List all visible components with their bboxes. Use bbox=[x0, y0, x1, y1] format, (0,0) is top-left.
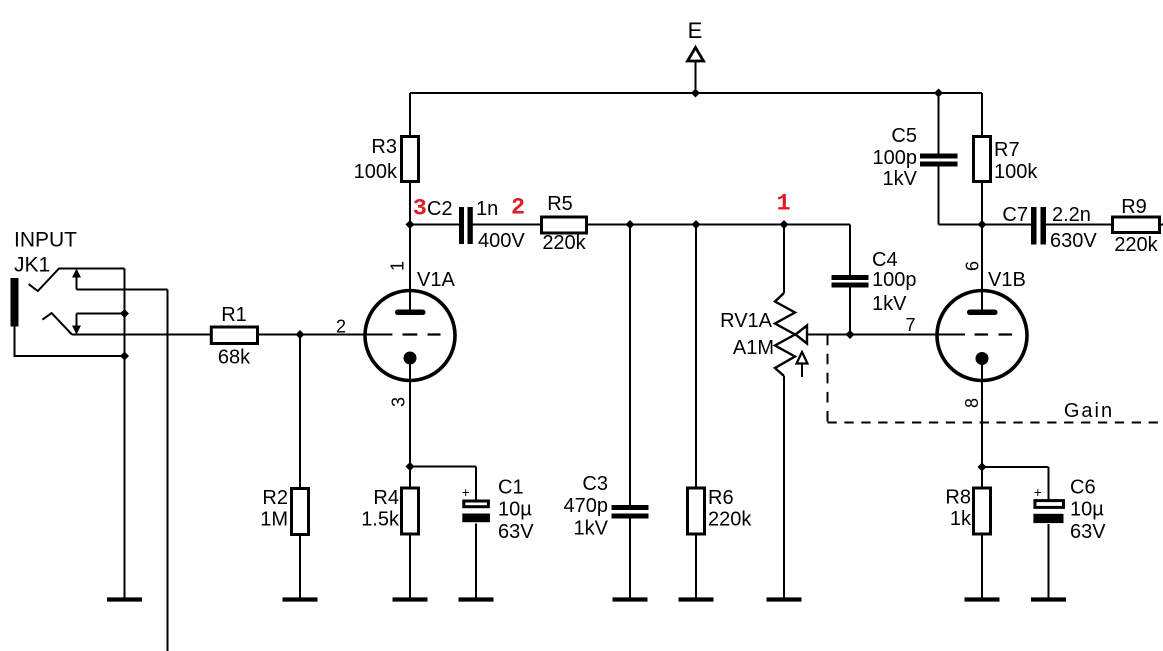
svg-text:3: 3 bbox=[413, 196, 427, 223]
svg-text:1kV: 1kV bbox=[872, 293, 907, 315]
svg-text:68k: 68k bbox=[218, 347, 251, 369]
svg-text:1n: 1n bbox=[476, 198, 498, 220]
svg-text:1kV: 1kV bbox=[574, 518, 609, 540]
svg-text:100p: 100p bbox=[872, 269, 917, 291]
svg-text:2: 2 bbox=[336, 317, 346, 337]
svg-text:1k: 1k bbox=[950, 508, 972, 530]
svg-text:1M: 1M bbox=[260, 509, 288, 531]
svg-text:6: 6 bbox=[962, 261, 982, 271]
svg-text:63V: 63V bbox=[1070, 521, 1106, 543]
svg-text:470p: 470p bbox=[564, 495, 609, 517]
svg-text:C5: C5 bbox=[891, 125, 917, 147]
svg-text:R6: R6 bbox=[708, 487, 734, 509]
svg-text:+: + bbox=[462, 485, 470, 500]
svg-text:INPUT: INPUT bbox=[14, 229, 77, 252]
svg-text:A1M: A1M bbox=[733, 337, 774, 359]
svg-text:100k: 100k bbox=[354, 161, 398, 183]
svg-text:C3: C3 bbox=[582, 473, 608, 495]
svg-text:63V: 63V bbox=[498, 521, 534, 543]
svg-text:1: 1 bbox=[777, 191, 791, 218]
svg-text:7: 7 bbox=[905, 315, 915, 335]
svg-text:1.5k: 1.5k bbox=[361, 509, 400, 531]
svg-text:100k: 100k bbox=[994, 161, 1038, 183]
svg-text:2.2n: 2.2n bbox=[1052, 204, 1091, 226]
svg-text:JK1: JK1 bbox=[14, 254, 50, 277]
svg-text:R8: R8 bbox=[945, 487, 971, 509]
svg-text:C7: C7 bbox=[1002, 204, 1028, 226]
svg-text:RV1A: RV1A bbox=[720, 310, 773, 332]
svg-text:2: 2 bbox=[511, 195, 525, 222]
svg-text:R5: R5 bbox=[547, 193, 573, 215]
svg-text:3: 3 bbox=[389, 397, 409, 407]
svg-text:100p: 100p bbox=[873, 147, 918, 169]
svg-text:1kV: 1kV bbox=[883, 168, 918, 190]
svg-text:R7: R7 bbox=[994, 139, 1020, 161]
svg-text:220k: 220k bbox=[1114, 234, 1158, 256]
svg-text:Gain: Gain bbox=[1064, 400, 1114, 422]
svg-text:V1B: V1B bbox=[988, 269, 1026, 291]
svg-text:R2: R2 bbox=[262, 487, 288, 509]
svg-text:R1: R1 bbox=[221, 304, 247, 326]
svg-text:C2: C2 bbox=[427, 198, 453, 220]
svg-text:V1A: V1A bbox=[417, 269, 455, 291]
svg-text:R3: R3 bbox=[371, 136, 397, 158]
svg-text:630V: 630V bbox=[1050, 230, 1097, 252]
svg-text:R4: R4 bbox=[373, 487, 399, 509]
svg-text:E: E bbox=[688, 18, 703, 43]
svg-text:1: 1 bbox=[388, 261, 408, 271]
svg-text:400V: 400V bbox=[478, 230, 525, 252]
svg-text:8: 8 bbox=[962, 398, 982, 408]
svg-text:220k: 220k bbox=[542, 232, 586, 254]
svg-text:R9: R9 bbox=[1121, 196, 1147, 218]
svg-text:C4: C4 bbox=[872, 249, 898, 271]
svg-text:+: + bbox=[1034, 485, 1042, 500]
svg-text:10µ: 10µ bbox=[1070, 499, 1104, 521]
svg-text:220k: 220k bbox=[708, 509, 752, 531]
svg-text:C1: C1 bbox=[498, 477, 524, 499]
svg-text:10µ: 10µ bbox=[498, 499, 532, 521]
svg-text:C6: C6 bbox=[1070, 477, 1096, 499]
